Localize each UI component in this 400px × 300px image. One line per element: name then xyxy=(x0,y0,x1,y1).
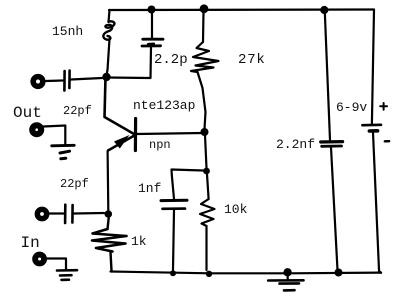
node dot D8 (ground tap) xyxy=(283,268,291,276)
resistor R3 1k xyxy=(92,217,127,271)
label 2.2nf xyxy=(276,137,315,152)
wire bottom rail xyxy=(111,272,382,274)
terminal T4 In connector shield xyxy=(32,252,47,267)
wire T4 to GND3 xyxy=(47,259,66,270)
label 22pf top xyxy=(63,104,92,118)
node dot D2 (top rail / 27k) xyxy=(200,4,209,13)
label npn xyxy=(149,138,171,152)
node dot D4 (base / 27k bottom) xyxy=(201,128,209,136)
label 2.2p xyxy=(154,52,188,68)
node dot D3 (top rail / 2.2nf) xyxy=(320,6,328,14)
label minus xyxy=(385,140,389,143)
wire T3 to GND2 xyxy=(44,126,66,145)
capacitor C3 1nf xyxy=(161,200,187,270)
inductor L1 15nh xyxy=(103,10,114,75)
capacitor C1 2.2p xyxy=(142,11,163,46)
wire base to D4 xyxy=(137,133,204,134)
wire D5 to 1nf top xyxy=(172,170,204,200)
label In xyxy=(21,234,40,252)
label 27k xyxy=(238,52,266,68)
capacitor C5 2.2nf xyxy=(321,142,343,270)
label 10k xyxy=(224,202,247,217)
resistor R1 27k xyxy=(191,12,219,129)
resistor R2 10k xyxy=(200,174,215,270)
label 22pf bottom xyxy=(60,177,89,191)
label nte123ap xyxy=(133,98,195,113)
label 6-9v xyxy=(336,100,367,115)
label plus xyxy=(380,103,387,110)
wire bottom rail right end to battery xyxy=(379,271,381,273)
wire C4 to J2 xyxy=(74,212,104,215)
node junction J1 (inductor / 22pf / 2.2p / collector) xyxy=(102,73,110,81)
wire top rail xyxy=(109,8,374,11)
ground GND1 (main) xyxy=(268,275,303,290)
node dot D1 (top rail / 2.2p) xyxy=(148,6,156,14)
ground GND3 (In shield) xyxy=(57,270,77,280)
node junction J2 (emitter / 22pf / 1k) xyxy=(105,210,113,218)
label 15nh xyxy=(52,24,83,39)
terminal T3 Out connector shield xyxy=(29,122,44,137)
wire D3 to 2.2nf xyxy=(325,12,330,140)
ground GND2 (Out shield) xyxy=(52,145,74,159)
capacitor C4 22pf (input coupling) xyxy=(65,205,73,223)
wire T1 to C2 xyxy=(46,79,63,82)
wire D4 to D5 xyxy=(205,135,207,168)
node dot D9 (2.2nf / bottom rail) xyxy=(335,269,343,277)
wire J1 to 2.2p bottom xyxy=(107,48,152,79)
node dot D5 (1nf / 10k tap) xyxy=(203,168,210,175)
terminal T2 (input coupling connector) xyxy=(35,207,50,222)
wire emitter down to J2 xyxy=(106,152,109,211)
label 1k xyxy=(131,234,147,249)
node dot D7 (10k / bottom rail) xyxy=(206,271,212,277)
wire C2 to J1 xyxy=(71,78,102,80)
transistor Q1 nte123ap npn xyxy=(105,78,136,151)
label Out xyxy=(13,104,42,122)
capacitor C2 22pf (output coupling) xyxy=(64,71,69,91)
terminal T1 (RF out connector center) xyxy=(30,74,45,89)
wire T2 to C4 xyxy=(50,212,64,214)
node dot D6 (1nf / bottom rail) xyxy=(170,270,176,276)
label 1nf xyxy=(138,181,161,196)
battery B1 6-9v xyxy=(362,10,381,270)
